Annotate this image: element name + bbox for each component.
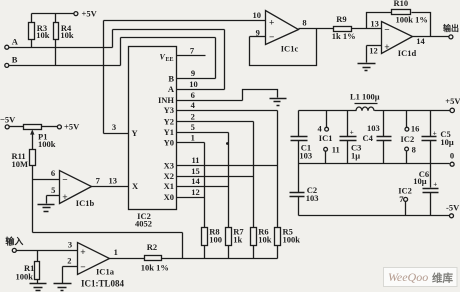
svg-text:Y0: Y0: [164, 138, 174, 148]
svg-text:Y3: Y3: [164, 105, 174, 115]
svg-text:+: +: [433, 180, 437, 188]
svg-text:+: +: [350, 129, 354, 137]
svg-text:100k 1%: 100k 1%: [396, 15, 428, 25]
svg-text:4: 4: [191, 100, 196, 110]
svg-text:IC2: IC2: [401, 134, 415, 144]
svg-text:输出: 输出: [443, 23, 459, 33]
svg-text:−: −: [384, 26, 389, 36]
svg-text:0: 0: [450, 151, 454, 161]
svg-text:2: 2: [67, 255, 71, 265]
svg-text:10μ: 10μ: [413, 176, 427, 186]
svg-text:−5V: −5V: [0, 115, 16, 125]
svg-text:IC1:TL084: IC1:TL084: [81, 278, 125, 288]
svg-text:10k: 10k: [36, 30, 50, 40]
svg-text:+5V: +5V: [445, 96, 460, 106]
svg-text:A: A: [168, 84, 175, 94]
svg-text:维库: 维库: [432, 271, 453, 284]
svg-text:B: B: [168, 73, 174, 83]
svg-text:7: 7: [96, 176, 101, 186]
svg-text:100: 100: [209, 235, 222, 245]
svg-text:15: 15: [191, 166, 200, 176]
svg-text:16: 16: [411, 124, 420, 134]
svg-text:+: +: [62, 193, 67, 203]
svg-text:10: 10: [252, 10, 261, 20]
svg-text:IC1c: IC1c: [281, 43, 299, 53]
svg-text:+: +: [269, 18, 274, 28]
svg-text:3: 3: [112, 122, 116, 132]
svg-text:6: 6: [191, 90, 195, 100]
svg-text:R10: R10: [393, 0, 408, 8]
svg-text:IC1d: IC1d: [398, 48, 417, 58]
svg-text:+: +: [80, 248, 85, 258]
svg-text:Y1: Y1: [164, 127, 174, 137]
svg-text:X1: X1: [164, 181, 174, 191]
svg-text:2: 2: [191, 112, 195, 122]
svg-text:Y: Y: [132, 128, 138, 138]
svg-text:IC1b: IC1b: [76, 198, 95, 208]
svg-text:12: 12: [369, 46, 378, 56]
svg-text:13: 13: [370, 19, 379, 29]
svg-text:1k: 1k: [233, 235, 242, 245]
svg-text:R2: R2: [147, 242, 157, 252]
svg-text:14: 14: [416, 36, 425, 46]
svg-text:L1 100μ: L1 100μ: [350, 92, 380, 102]
svg-text:4052: 4052: [135, 219, 152, 229]
svg-text:9: 9: [256, 27, 260, 37]
svg-text:IC1: IC1: [319, 133, 333, 143]
svg-text:R9: R9: [336, 14, 346, 24]
svg-text:C4: C4: [363, 133, 374, 143]
svg-text:10k 1%: 10k 1%: [141, 262, 169, 272]
svg-text:+: +: [384, 43, 389, 53]
svg-text:10k: 10k: [60, 30, 74, 40]
svg-text:EE: EE: [166, 57, 174, 63]
svg-text:B: B: [12, 54, 18, 64]
svg-text:X3: X3: [164, 160, 174, 170]
svg-text:8: 8: [412, 145, 416, 155]
svg-text:A: A: [12, 36, 19, 46]
svg-text:5: 5: [51, 185, 55, 195]
svg-text:输入: 输入: [5, 236, 23, 247]
svg-text:-5V: -5V: [446, 203, 460, 213]
svg-text:10M: 10M: [12, 159, 29, 169]
svg-text:5: 5: [191, 122, 195, 132]
svg-text:11: 11: [332, 145, 340, 155]
svg-text:X2: X2: [164, 171, 174, 181]
svg-text:14: 14: [191, 176, 200, 186]
svg-text:+5V: +5V: [82, 9, 98, 19]
svg-text:100k: 100k: [38, 139, 56, 149]
svg-text:Y2: Y2: [164, 117, 174, 127]
svg-text:IC1a: IC1a: [96, 267, 115, 277]
svg-text:103: 103: [299, 151, 312, 161]
svg-text:−: −: [269, 33, 274, 43]
svg-text:103: 103: [306, 193, 319, 203]
svg-text:−: −: [80, 263, 85, 273]
svg-text:103: 103: [367, 123, 380, 133]
svg-text:10k: 10k: [258, 235, 272, 245]
svg-text:100k: 100k: [283, 235, 301, 245]
svg-text:11: 11: [191, 155, 199, 165]
svg-text:INH: INH: [158, 95, 174, 105]
svg-text:10: 10: [189, 79, 198, 89]
svg-text:8: 8: [302, 18, 306, 28]
svg-text:100k: 100k: [16, 272, 34, 282]
svg-text:1: 1: [114, 247, 118, 257]
svg-text:3: 3: [68, 239, 72, 249]
svg-text:9: 9: [191, 68, 195, 78]
svg-text:1: 1: [191, 133, 195, 143]
svg-text:6: 6: [51, 168, 55, 178]
svg-text:+5V: +5V: [64, 122, 80, 132]
svg-text:10μ: 10μ: [440, 137, 454, 147]
svg-text:WeeQoo: WeeQoo: [388, 270, 428, 284]
svg-text:13: 13: [108, 176, 117, 186]
svg-text:1μ: 1μ: [351, 151, 360, 161]
svg-text:−: −: [62, 176, 67, 186]
svg-text:+: +: [433, 129, 437, 137]
svg-text:X0: X0: [164, 192, 174, 202]
svg-text:1k 1%: 1k 1%: [332, 31, 356, 41]
svg-text:12: 12: [191, 187, 200, 197]
svg-text:X: X: [132, 181, 139, 191]
